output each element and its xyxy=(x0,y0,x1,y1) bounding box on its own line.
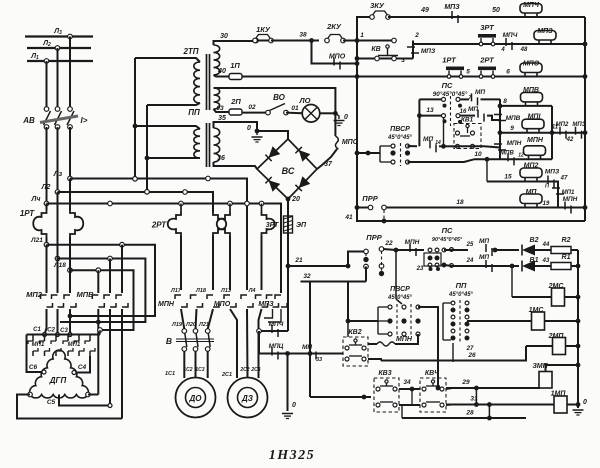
svg-text:03: 03 xyxy=(216,105,224,112)
svg-text:Л20: Л20 xyxy=(185,322,196,328)
svg-text:2МП: 2МП xyxy=(548,333,565,340)
svg-text:С6: С6 xyxy=(29,364,38,371)
svg-text:МПН: МПН xyxy=(396,336,413,343)
svg-text:ПВСР: ПВСР xyxy=(390,286,410,293)
svg-text:R2: R2 xyxy=(562,237,571,244)
svg-text:20: 20 xyxy=(291,196,300,203)
svg-text:50: 50 xyxy=(492,7,500,14)
svg-text:ПРР: ПРР xyxy=(362,194,378,203)
svg-text:КВ2: КВ2 xyxy=(348,329,361,336)
svg-text:МП: МП xyxy=(423,136,433,143)
svg-text:МПО: МПО xyxy=(329,54,346,61)
svg-text:1С1: 1С1 xyxy=(165,371,175,377)
svg-text:Лч: Лч xyxy=(31,196,41,203)
svg-text:35: 35 xyxy=(218,115,226,122)
svg-text:36: 36 xyxy=(217,155,225,162)
svg-text:3КУ: 3КУ xyxy=(370,1,385,10)
svg-text:8: 8 xyxy=(503,98,507,105)
svg-text:44: 44 xyxy=(542,242,550,248)
svg-text:15: 15 xyxy=(504,174,512,181)
svg-text:ПС: ПС xyxy=(442,81,453,90)
svg-text:1КУ: 1КУ xyxy=(256,25,271,34)
svg-text:33: 33 xyxy=(316,357,322,363)
svg-text:МП2: МП2 xyxy=(524,163,539,170)
svg-text:МП1: МП1 xyxy=(32,342,45,348)
svg-text:Л18: Л18 xyxy=(195,288,207,294)
svg-text:ПП: ПП xyxy=(456,281,467,290)
svg-text:38: 38 xyxy=(299,32,307,39)
svg-text:В2: В2 xyxy=(530,237,539,244)
svg-text:В: В xyxy=(166,336,172,346)
svg-text:МП: МП xyxy=(479,238,489,245)
svg-text:10: 10 xyxy=(474,151,482,158)
svg-text:ЭП: ЭП xyxy=(296,222,307,229)
svg-text:МПЦ: МПЦ xyxy=(269,343,284,350)
svg-text:В1: В1 xyxy=(530,257,539,264)
svg-text:МПН: МПН xyxy=(405,239,420,246)
svg-text:МПЗ: МПЗ xyxy=(421,48,436,55)
svg-text:МПЧ: МПЧ xyxy=(523,2,540,9)
svg-text:ПС: ПС xyxy=(442,226,453,235)
svg-text:0: 0 xyxy=(344,114,348,121)
svg-text:Л13: Л13 xyxy=(220,288,231,294)
svg-text:ДГП: ДГП xyxy=(49,376,67,385)
svg-text:1С2: 1С2 xyxy=(183,367,192,373)
svg-text:2МС: 2МС xyxy=(548,283,565,290)
svg-text:45°0°45°: 45°0°45° xyxy=(387,295,412,301)
svg-text:21: 21 xyxy=(294,257,303,264)
svg-text:28: 28 xyxy=(465,410,474,417)
svg-text:МПН: МПН xyxy=(563,196,578,203)
svg-text:45°0°45°: 45°0°45° xyxy=(448,292,473,298)
svg-text:КВЧ: КВЧ xyxy=(425,370,440,377)
svg-text:2КУ: 2КУ xyxy=(326,22,342,31)
svg-text:37: 37 xyxy=(324,161,333,168)
svg-text:Л1: Л1 xyxy=(30,53,39,61)
svg-text:С5: С5 xyxy=(47,399,56,406)
svg-text:43: 43 xyxy=(542,258,550,264)
svg-text:КВ: КВ xyxy=(371,46,380,53)
svg-text:МП: МП xyxy=(479,254,489,261)
svg-text:5: 5 xyxy=(466,69,470,76)
svg-text:Л21: Л21 xyxy=(30,237,43,244)
svg-text:3: 3 xyxy=(401,57,405,64)
svg-text:2ТП: 2ТП xyxy=(182,47,198,56)
svg-text:МПЗ: МПЗ xyxy=(537,28,553,35)
svg-text:МПН: МПН xyxy=(507,140,522,147)
svg-text:ВО: ВО xyxy=(273,93,286,102)
svg-text:01: 01 xyxy=(291,105,299,112)
svg-text:С1: С1 xyxy=(33,327,41,333)
svg-text:48: 48 xyxy=(520,47,528,53)
svg-text:Л18: Л18 xyxy=(53,262,66,269)
svg-text:1МС: 1МС xyxy=(529,307,545,314)
svg-text:1Н325: 1Н325 xyxy=(269,448,315,463)
svg-text:МП: МП xyxy=(526,189,538,196)
svg-text:40: 40 xyxy=(217,68,226,75)
svg-text:0: 0 xyxy=(247,125,251,132)
svg-text:МП1: МП1 xyxy=(68,342,81,348)
svg-text:18: 18 xyxy=(456,199,464,206)
svg-text:6: 6 xyxy=(506,69,510,76)
svg-text:24: 24 xyxy=(466,258,474,264)
svg-text:42: 42 xyxy=(566,137,574,143)
svg-text:3РТ: 3РТ xyxy=(480,23,495,32)
svg-text:19: 19 xyxy=(543,201,550,207)
svg-text:МПІ: МПІ xyxy=(528,114,542,121)
svg-text:9: 9 xyxy=(510,125,514,132)
svg-text:ПРР: ПРР xyxy=(366,233,382,242)
svg-text:25: 25 xyxy=(466,242,474,248)
svg-text:Л3: Л3 xyxy=(53,28,62,36)
svg-text:2С3: 2С3 xyxy=(250,367,260,373)
svg-text:16: 16 xyxy=(460,109,467,115)
svg-text:47: 47 xyxy=(560,176,568,182)
svg-text:1РТ: 1РТ xyxy=(20,209,35,218)
svg-text:30: 30 xyxy=(220,33,228,40)
svg-text:1: 1 xyxy=(360,32,364,39)
svg-text:23: 23 xyxy=(416,266,424,272)
svg-text:1МП: 1МП xyxy=(551,391,567,398)
svg-text:ПП: ПП xyxy=(188,108,200,117)
svg-text:2РТ: 2РТ xyxy=(479,56,495,65)
svg-text:3РТ: 3РТ xyxy=(266,222,279,229)
svg-text:ДЗ: ДЗ xyxy=(241,394,253,403)
svg-text:2РТ: 2РТ xyxy=(151,221,167,230)
svg-text:ВС: ВС xyxy=(282,166,295,176)
svg-text:МПВ: МПВ xyxy=(500,151,514,157)
svg-text:МПВ: МПВ xyxy=(506,115,521,122)
svg-text:2С2: 2С2 xyxy=(239,367,249,373)
svg-text:МПЧ: МПЧ xyxy=(503,32,518,39)
svg-text:I>: I> xyxy=(81,116,88,125)
svg-text:41: 41 xyxy=(344,214,353,221)
svg-text:Л4: Л4 xyxy=(248,288,256,294)
svg-text:2: 2 xyxy=(414,32,419,39)
svg-text:Лз: Лз xyxy=(53,171,63,178)
svg-text:34: 34 xyxy=(403,379,411,386)
svg-text:90°45°0°45°: 90°45°0°45° xyxy=(432,237,463,243)
svg-text:1РТ: 1РТ xyxy=(442,56,457,65)
svg-text:Л17: Л17 xyxy=(170,288,182,294)
svg-text:Л2: Л2 xyxy=(42,40,51,48)
svg-text:1П: 1П xyxy=(230,61,240,70)
svg-text:22: 22 xyxy=(384,240,393,247)
svg-text:26: 26 xyxy=(467,352,476,359)
svg-text:МПЗ: МПЗ xyxy=(545,169,560,176)
svg-text:МПЗ: МПЗ xyxy=(572,122,585,128)
svg-text:КВ3: КВ3 xyxy=(378,370,391,377)
svg-text:45°0°45°: 45°0°45° xyxy=(387,135,412,141)
svg-text:R1: R1 xyxy=(562,254,571,261)
svg-text:0: 0 xyxy=(292,402,296,409)
svg-text:02: 02 xyxy=(248,104,256,111)
svg-text:2П: 2П xyxy=(230,97,241,106)
svg-text:2С1: 2С1 xyxy=(221,372,232,378)
svg-text:МП: МП xyxy=(475,89,485,96)
svg-text:МП: МП xyxy=(468,106,478,113)
svg-text:С3: С3 xyxy=(60,328,68,334)
svg-text:32: 32 xyxy=(303,273,311,280)
svg-text:МПН: МПН xyxy=(158,301,175,308)
svg-text:ДО: ДО xyxy=(189,394,203,403)
svg-text:МПЧ: МПЧ xyxy=(269,321,284,328)
svg-text:С2: С2 xyxy=(47,328,55,334)
svg-text:0: 0 xyxy=(583,399,587,406)
svg-text:Л19: Л19 xyxy=(171,322,183,328)
svg-text:Л2: Л2 xyxy=(41,184,51,191)
svg-text:29: 29 xyxy=(461,379,470,386)
svg-text:МП2: МП2 xyxy=(556,122,569,128)
svg-text:МПО: МПО xyxy=(523,61,540,68)
svg-text:ПВСР: ПВСР xyxy=(390,126,410,133)
svg-text:С4: С4 xyxy=(78,364,87,371)
svg-text:4: 4 xyxy=(500,47,505,53)
svg-text:КВ1: КВ1 xyxy=(461,117,474,124)
svg-text:МПВ: МПВ xyxy=(523,87,539,94)
svg-text:МПВ: МПВ xyxy=(76,290,94,299)
svg-text:АВ: АВ xyxy=(22,116,35,125)
svg-text:МПЗ: МПЗ xyxy=(444,4,460,11)
svg-text:ЛО: ЛО xyxy=(299,96,311,105)
svg-text:МПН: МПН xyxy=(527,137,544,144)
svg-text:1С3: 1С3 xyxy=(195,367,204,373)
svg-text:13: 13 xyxy=(426,107,434,114)
svg-text:49: 49 xyxy=(420,7,429,14)
